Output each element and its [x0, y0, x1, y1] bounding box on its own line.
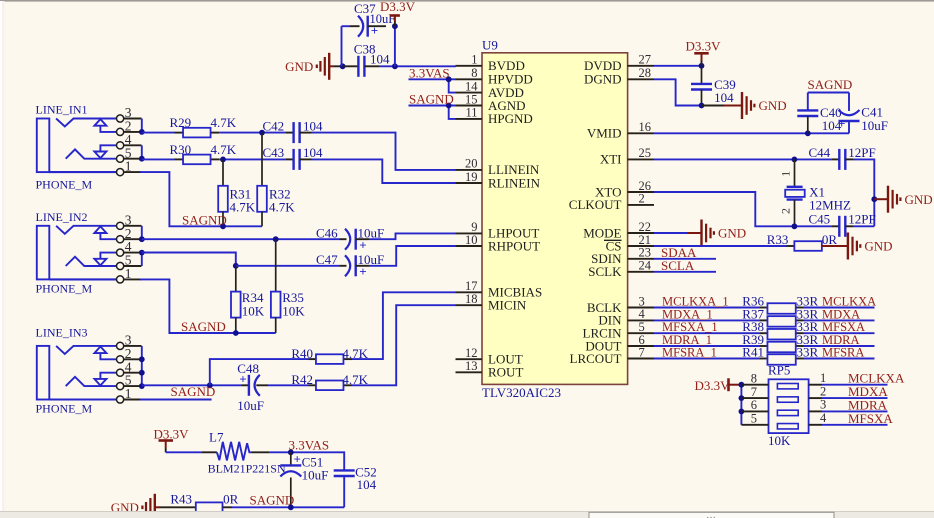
- svg-text:MICIN: MICIN: [488, 298, 527, 313]
- U9 pin 18 MICIN: [456, 292, 527, 313]
- svg-text:10: 10: [465, 233, 478, 247]
- svg-text:LRCOUT: LRCOUT: [570, 351, 622, 366]
- node RP5 pin7 junction: [739, 395, 745, 401]
- wire L7 to 3.3VAS rail: [270, 452, 345, 470]
- svg-text:CLKOUT: CLKOUT: [569, 197, 622, 212]
- svg-text:R33: R33: [767, 232, 789, 247]
- svg-text:4: 4: [820, 411, 827, 425]
- wire jack2 pin4 junction to pin5: [141, 253, 143, 266]
- capacitor C39 104: [691, 66, 736, 106]
- svg-text:1: 1: [820, 371, 826, 385]
- power port GND at crystal: [874, 186, 932, 213]
- node jack3 pin5 junction: [139, 383, 145, 389]
- wire R42 to U9 pin18: [352, 305, 456, 385]
- node DGND junction: [699, 103, 705, 109]
- capacitor C46 10uF: [316, 225, 384, 252]
- U9 pin 15 AGND: [456, 92, 526, 113]
- wire C42 to U9 pin20: [312, 133, 456, 170]
- svg-text:SAGND: SAGND: [409, 92, 454, 107]
- svg-text:18: 18: [465, 292, 478, 306]
- resistor R36 33R: [742, 294, 818, 314]
- LINE_IN3 pin 4: [117, 359, 142, 376]
- resistor R43 0R: [170, 492, 238, 513]
- svg-text:104: 104: [303, 118, 323, 133]
- wire jack3 pins 3-2-4-5 bus: [141, 346, 143, 386]
- svg-text:HPGND: HPGND: [488, 111, 533, 126]
- svg-text:27: 27: [639, 53, 652, 67]
- capacitor C37 10uF: [350, 1, 395, 38]
- wire jack3 pin1 SAGND stub: [140, 399, 212, 401]
- resistor R33 0R: [767, 232, 838, 251]
- U9 pin 7 LRCOUT: [570, 345, 655, 366]
- svg-text:SAGND: SAGND: [182, 213, 227, 228]
- svg-text:10K: 10K: [282, 303, 305, 318]
- svg-text:D3.3V: D3.3V: [695, 378, 731, 393]
- svg-text:8: 8: [471, 66, 477, 80]
- node jack3 pin4 junction: [139, 370, 145, 376]
- wire LLINEIN net jack1 to R29: [142, 132, 175, 134]
- svg-text:TLV320AIC23: TLV320AIC23: [482, 385, 561, 400]
- wire U9 pin21 CS to R33: [654, 245, 787, 247]
- wire U9 pin 7 to R41: [654, 358, 760, 360]
- svg-text:16: 16: [639, 120, 652, 134]
- U9 pin 26 XTO: [595, 179, 654, 200]
- svg-text:7: 7: [751, 385, 757, 399]
- svg-text:19: 19: [465, 170, 478, 184]
- wire C48 branch to R40: [210, 359, 309, 385]
- svg-text:+: +: [294, 451, 301, 466]
- U9 pin 4 DIN: [598, 307, 654, 328]
- node SAGND junction bottom: [288, 504, 294, 510]
- resistor R41 33R: [742, 345, 818, 365]
- power port GND at MODE: [700, 220, 702, 247]
- svg-text:24: 24: [639, 259, 652, 273]
- svg-text:12PF: 12PF: [848, 212, 875, 227]
- U9 pin 10 RHPOUT: [456, 233, 541, 254]
- svg-text:11: 11: [465, 106, 477, 120]
- node R34 top junction: [233, 263, 239, 269]
- capacitor C41 10uF: [838, 104, 888, 132]
- node XTI junction: [792, 157, 798, 163]
- svg-text:C42: C42: [263, 118, 285, 133]
- U9 pin 13 ROUT: [456, 359, 524, 380]
- svg-text:D3.3V: D3.3V: [154, 427, 190, 442]
- wire R30 to C43: [219, 158, 286, 160]
- node 3.3VAS junction: [446, 76, 452, 82]
- svg-text:PHONE_M: PHONE_M: [36, 177, 93, 191]
- svg-text:3: 3: [639, 294, 645, 308]
- svg-text:MCLKXA_1: MCLKXA_1: [662, 295, 729, 309]
- scrollbar thumb: [589, 510, 834, 518]
- wire R41 out: [804, 358, 875, 360]
- window top border: [0, 0, 934, 2]
- LINE_IN1 pin 4: [117, 132, 142, 149]
- svg-text:+: +: [838, 116, 845, 131]
- wire C46 to U9 pin9: [369, 233, 456, 239]
- svg-text:SAGND: SAGND: [808, 77, 853, 92]
- svg-text:L7: L7: [209, 430, 224, 445]
- svg-text:23: 23: [639, 246, 652, 260]
- wire jack2 pin4 to C47 row: [142, 253, 236, 266]
- svg-text:C46: C46: [316, 225, 338, 240]
- power port GND at R33: [822, 233, 893, 260]
- svg-text:8: 8: [751, 372, 757, 386]
- wire C45 to GND vertical: [853, 225, 874, 227]
- svg-text:SCLK: SCLK: [588, 264, 622, 279]
- svg-text:4.7K: 4.7K: [211, 115, 237, 130]
- U9 pin 6 DOUT: [585, 333, 654, 354]
- svg-text:1: 1: [471, 53, 477, 67]
- wire U9 pin28 DGND to C39 bottom: [654, 79, 702, 105]
- U9 pin 27 DVDD: [584, 53, 654, 74]
- svg-text:U9: U9: [482, 38, 498, 53]
- svg-text:C45: C45: [809, 212, 831, 227]
- svg-text:2: 2: [820, 384, 826, 398]
- svg-text:0R: 0R: [822, 232, 838, 247]
- wire RLINEIN net jack1 to R30: [142, 158, 175, 160]
- capacitor C48 10uF: [237, 361, 268, 413]
- RP5 pin 4 right: [809, 411, 827, 425]
- wire to C47: [236, 265, 340, 267]
- resistor R39 33R: [742, 332, 818, 352]
- node XTO junction: [792, 223, 798, 229]
- wire U9 pin16 VMID to C40 C41: [654, 93, 849, 134]
- svg-text:D3.3V: D3.3V: [380, 0, 416, 14]
- svg-text:3.3VAS: 3.3VAS: [289, 438, 330, 453]
- wire jack1 pin3 to pin2 junction: [141, 119, 143, 132]
- resistor R30: [170, 142, 237, 164]
- LINE_IN3 pin 1: [117, 386, 142, 403]
- wire jack2 pin2 to C46: [142, 238, 340, 240]
- LINE_IN1 pin 3: [117, 105, 142, 122]
- node R31 bottom junction: [220, 223, 226, 229]
- svg-text:6: 6: [751, 398, 757, 412]
- node C40 junction: [805, 130, 811, 136]
- power port D3.3V top-right: [686, 38, 722, 65]
- svg-text:RP5: RP5: [768, 363, 790, 378]
- svg-text:PHONE_M: PHONE_M: [36, 281, 93, 295]
- wire C48 to R42: [268, 384, 309, 386]
- resistor R34: [231, 266, 265, 333]
- wire U9 pin 3 to R36: [654, 307, 760, 309]
- wire RP5 MCLKXA: [822, 384, 888, 386]
- U9 pin 25 XTI: [600, 146, 654, 167]
- LINE_IN2 pin 5: [117, 253, 142, 270]
- U9 pin 3 BCLK: [587, 294, 654, 315]
- svg-text:1: 1: [779, 171, 793, 177]
- wire C43 to U9 pin19: [312, 159, 456, 183]
- U9 pin 17 MICBIAS: [456, 279, 543, 300]
- node jack1 pin5 junction: [139, 156, 145, 162]
- capacitor C47 10uF: [316, 252, 384, 279]
- svg-text:10uF: 10uF: [237, 398, 264, 413]
- resistor R31: [218, 159, 256, 226]
- scrollbar track: [0, 512, 934, 518]
- svg-text:C43: C43: [263, 145, 285, 160]
- wire R40 to U9 pin17: [352, 292, 456, 359]
- svg-text:SCLA: SCLA: [661, 258, 695, 273]
- wire jack2 pin1 to SAGND rail 2: [140, 279, 276, 333]
- svg-text:10K: 10K: [242, 303, 265, 318]
- svg-text:104: 104: [303, 145, 323, 160]
- svg-text:+: +: [359, 264, 366, 279]
- node R34 bottom junction: [233, 330, 239, 336]
- LINE_IN3 pin 2: [117, 346, 142, 363]
- LINE_IN1 pin 2: [117, 119, 142, 136]
- svg-text:3.3VAS: 3.3VAS: [409, 65, 450, 80]
- power port GND at R43: [111, 494, 172, 518]
- power port D3.3V top-left: [380, 0, 416, 26]
- RP5 pin 3 right: [809, 398, 827, 412]
- node C48 branch junction: [207, 382, 213, 388]
- svg-text:MFSRA_1: MFSRA_1: [662, 346, 717, 360]
- RP5 pin 8 left: [741, 372, 768, 386]
- svg-text:R41: R41: [742, 345, 764, 360]
- capacitor C45 12PF: [809, 212, 876, 237]
- svg-text:12: 12: [465, 346, 478, 360]
- svg-text:4.7K: 4.7K: [269, 200, 295, 215]
- U9 pin 9 LHPOUT: [456, 220, 540, 241]
- power port D3.3V at RP5: [695, 378, 742, 393]
- svg-text:R30: R30: [170, 142, 192, 157]
- U9 pin 28 DGND: [584, 66, 654, 87]
- LINE_IN2 pin 4: [117, 239, 142, 256]
- svg-text:C44: C44: [809, 145, 831, 160]
- resistor R32: [257, 133, 295, 227]
- svg-text:PHONE_M: PHONE_M: [36, 402, 93, 416]
- svg-text:1: 1: [125, 386, 132, 401]
- wire RP5 MFSXA: [822, 424, 888, 426]
- wire C37 branch: [342, 26, 395, 66]
- wire jack2 pin3 to pin2 junction: [141, 226, 143, 239]
- svg-text:15: 15: [465, 92, 478, 106]
- RP5 pin 5 left: [741, 412, 768, 426]
- resistor R29: [170, 115, 237, 137]
- svg-text:MCLKXA: MCLKXA: [822, 295, 876, 309]
- node D3.3V junction on BVDD: [392, 63, 398, 69]
- window left edge: [0, 1, 2, 518]
- LINE_IN3 pin 5: [117, 373, 142, 390]
- wire 3.3VAS to pins 8 and 14: [409, 79, 456, 92]
- U9 pin 24 SCLK: [588, 259, 654, 280]
- svg-text:1: 1: [125, 266, 132, 281]
- capacitor C44 12PF: [809, 145, 876, 170]
- U9 pin 23 SDIN: [591, 246, 654, 267]
- node C37 right junction: [392, 23, 398, 29]
- wire U9 pin 6 to R39: [654, 345, 760, 347]
- U9 pin 8 HPVDD: [456, 66, 533, 87]
- capacitor C40 104: [797, 105, 842, 133]
- node RP5 pin8 junction: [739, 382, 745, 388]
- node SAGND junction: [446, 103, 452, 109]
- svg-text:GND: GND: [285, 59, 313, 74]
- wire R29 to C42: [219, 132, 286, 134]
- LINE_IN2 pin 1: [117, 266, 142, 283]
- svg-text:+: +: [371, 23, 378, 38]
- connector LINE_IN2 jack symbol: [36, 210, 117, 295]
- svg-text:12MHZ: 12MHZ: [809, 198, 851, 213]
- wire SAGND to pins 15 and 11: [409, 106, 456, 119]
- capacitor C43 104: [263, 145, 324, 170]
- svg-text:RLINEIN: RLINEIN: [488, 175, 541, 190]
- connector LINE_IN3 jack symbol: [36, 326, 117, 416]
- resistor R40: [291, 346, 368, 364]
- RP5 pin 6 left: [741, 398, 768, 412]
- svg-text:104: 104: [714, 90, 734, 105]
- svg-text:C47: C47: [316, 252, 338, 267]
- wire R37 out: [804, 319, 875, 321]
- svg-text:DGND: DGND: [584, 72, 622, 87]
- svg-text:R42: R42: [291, 372, 313, 387]
- svg-text:12PF: 12PF: [848, 145, 875, 160]
- node C42 junction: [259, 130, 265, 136]
- wire jack1 pin1 to SAGND rail: [140, 172, 262, 226]
- wire D3.3V to L7: [166, 451, 202, 453]
- svg-text:33R: 33R: [797, 345, 819, 360]
- svg-text:2: 2: [779, 208, 793, 214]
- wire U9 pin24 SCLK: [654, 271, 716, 273]
- svg-text:1: 1: [125, 159, 132, 174]
- svg-text:SAGND: SAGND: [181, 319, 226, 334]
- wire C47 to U9 pin10: [369, 246, 456, 266]
- node RP5 pin6 junction: [739, 409, 745, 415]
- svg-text:R40: R40: [291, 346, 313, 361]
- crystal X1 12MHZ: [779, 159, 851, 226]
- svg-text:ROUT: ROUT: [488, 365, 523, 380]
- wire U9 pin 5 to R38: [654, 332, 760, 334]
- node R31 top junction: [220, 157, 226, 163]
- U9 pin 16 VMID: [587, 120, 654, 141]
- wire C44 to GND vertical: [853, 159, 874, 226]
- resistor network RP5 10K: [768, 363, 809, 448]
- resistor R42: [291, 372, 368, 390]
- svg-text:+: +: [359, 238, 366, 253]
- resistor R38 33R: [742, 319, 818, 339]
- svg-text:LINE_IN3: LINE_IN3: [36, 326, 88, 340]
- capacitor C51 10uF: [280, 451, 328, 507]
- svg-text:VMID: VMID: [587, 126, 622, 141]
- U9 pin 1 BVDD: [456, 53, 525, 74]
- svg-text:XTI: XTI: [600, 152, 622, 167]
- svg-text:LINE_IN2: LINE_IN2: [36, 210, 88, 224]
- svg-text:RHPOUT: RHPOUT: [488, 238, 540, 253]
- svg-text:26: 26: [639, 179, 652, 193]
- power port GND at C38: [285, 53, 342, 80]
- U9 pin 21 CS: [604, 233, 654, 254]
- RP5 pin 2 right: [809, 384, 827, 398]
- inductor L7 BLM21P221SN: [201, 430, 286, 476]
- connector LINE_IN1 jack symbol: [36, 103, 117, 192]
- node 3.3VAS junction bottom: [288, 449, 294, 455]
- power port D3.3V bottom: [154, 427, 190, 453]
- svg-text:3: 3: [820, 398, 826, 412]
- capacitor C38 104: [343, 42, 390, 77]
- wire U9 pin 4 to R37: [654, 319, 760, 321]
- U9 pin 11 HPGND: [456, 106, 533, 127]
- svg-text:0R: 0R: [223, 492, 239, 507]
- svg-text:SAGND: SAGND: [171, 384, 216, 399]
- node DVDD junction: [699, 63, 705, 69]
- LINE_IN1 pin 5: [117, 145, 142, 162]
- svg-text:2: 2: [639, 192, 645, 206]
- svg-text:25: 25: [639, 146, 652, 160]
- U9 pin 12 LOUT: [456, 346, 523, 367]
- op-amp U9 TLV320AIC23 body: [482, 38, 628, 401]
- svg-text:...: ...: [707, 510, 717, 518]
- svg-text:D3.3V: D3.3V: [686, 38, 722, 53]
- svg-text:20: 20: [465, 157, 478, 171]
- svg-text:14: 14: [465, 79, 478, 93]
- node jack2 pin2 junction: [139, 236, 145, 242]
- svg-text:22: 22: [639, 220, 652, 234]
- svg-text:10uF: 10uF: [302, 467, 329, 482]
- node jack2 pin4 junction: [139, 250, 145, 256]
- wire R43 to C51 C52: [232, 506, 344, 508]
- svg-text:17: 17: [465, 279, 478, 293]
- svg-text:13: 13: [465, 359, 478, 373]
- svg-text:GND: GND: [864, 239, 892, 254]
- wire U9 pin23 SDIN: [654, 258, 716, 260]
- LINE_IN3 pin 3: [117, 333, 142, 350]
- wire U9 pin26 XTO to C45: [654, 192, 832, 226]
- svg-text:MFSXA: MFSXA: [848, 411, 893, 426]
- svg-text:4.7K: 4.7K: [230, 200, 256, 215]
- LINE_IN1 pin 1: [117, 159, 142, 176]
- svg-text:R43: R43: [170, 492, 192, 507]
- wire RP5 MDXA: [822, 397, 888, 399]
- node C38 left junction: [340, 63, 346, 69]
- U9 pin 5 LRCIN: [583, 320, 655, 341]
- capacitor C52 104: [334, 465, 377, 508]
- svg-text:4.7K: 4.7K: [211, 142, 237, 157]
- svg-text:GND: GND: [905, 192, 933, 207]
- svg-text:104: 104: [370, 51, 390, 66]
- wire RP5 MDRA: [822, 410, 888, 412]
- resistor R35: [271, 239, 305, 333]
- svg-text:7: 7: [639, 345, 645, 359]
- svg-text:SAGND: SAGND: [250, 493, 295, 508]
- wire U9 pin25 XTI to C44: [654, 158, 832, 160]
- svg-text:5: 5: [751, 412, 757, 426]
- node jack1 pin2 junction: [139, 129, 145, 135]
- U9 pin 20 LLINEIN: [456, 157, 540, 178]
- U9 pin 19 RLINEIN: [456, 170, 541, 191]
- wire R39 out: [804, 345, 875, 347]
- svg-text:GND: GND: [718, 226, 746, 241]
- wire jack3 to C48: [142, 384, 242, 386]
- wire R36 out: [804, 307, 875, 309]
- capacitor C42 104: [263, 118, 324, 143]
- svg-text:104: 104: [357, 477, 377, 492]
- U9 pin 14 AVDD: [456, 79, 524, 100]
- svg-text:+: +: [239, 371, 246, 386]
- U9 pin 22 MODE: [583, 220, 654, 241]
- svg-text:10K: 10K: [768, 433, 791, 448]
- svg-text:R29: R29: [170, 115, 192, 130]
- svg-text:28: 28: [639, 66, 652, 80]
- RP5 pin 7 left: [741, 385, 768, 399]
- LINE_IN2 pin 2: [117, 226, 142, 243]
- svg-text:LINE_IN1: LINE_IN1: [36, 103, 88, 117]
- node crystal GND junction: [871, 196, 877, 202]
- U9 pin 2 CLKOUT: [569, 192, 654, 213]
- wire jack1 pin4 to pin5 junction: [141, 145, 143, 158]
- svg-text:10uF: 10uF: [861, 118, 888, 133]
- RP5 pin 1 right: [809, 371, 827, 385]
- wire U9 pin27 to D3.3V: [654, 65, 702, 67]
- LINE_IN2 pin 3: [117, 212, 142, 229]
- resistor R37 33R: [742, 306, 818, 326]
